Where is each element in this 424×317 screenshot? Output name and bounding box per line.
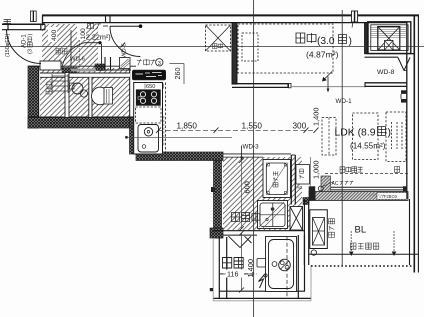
bath stool square	[257, 259, 266, 268]
counter front dashed edge	[165, 83, 167, 155]
bath centerline dashed	[286, 237, 288, 300]
bathroom left wall	[218, 237, 220, 299]
pipe symbol top-right	[352, 11, 355, 22]
WD-6 door threshold gray bar	[71, 69, 96, 72]
fridge dashed space	[136, 107, 162, 123]
yoshitsu left thick wall	[232, 23, 237, 85]
door jamb cap	[289, 83, 291, 87]
svg-text:AC: AC	[297, 185, 303, 190]
bathroom door folding V	[229, 236, 241, 247]
shelf ladder storage	[52, 75, 68, 77]
shelf small rect right of washroom	[296, 165, 310, 185]
genkan step	[40, 61, 61, 70]
oshiire dashed X box	[206, 25, 231, 51]
axis tick near hall	[121, 43, 126, 48]
niche corner block	[95, 64, 105, 71]
washroom label senmenshitsu	[232, 213, 240, 222]
svg-text:WD-3: WD-3	[243, 144, 260, 151]
svg-text:(3.0: (3.0	[317, 36, 335, 47]
top outer wall	[42, 14, 419, 16]
drain circle	[311, 250, 316, 255]
hatched area upper-left (common stair zone)	[42, 24, 98, 68]
top-left entrance wall segment	[2, 23, 45, 25]
shaft inner X square	[378, 27, 400, 50]
hall door WD-5 leaf + arc	[110, 25, 141, 27]
LDK / washroom dividing wall	[290, 155, 292, 205]
outer gray contour bathroom	[212, 238, 214, 301]
wall band kitchen left step	[130, 128, 138, 154]
wall between storage and basin room	[65, 73, 69, 117]
LDK sofa dashed	[386, 112, 406, 162]
svg-text:(4.87m²): (4.87m²)	[306, 50, 339, 60]
svg-text:300: 300	[293, 121, 307, 130]
1000 dim line	[309, 157, 311, 186]
X box next to vanity	[290, 207, 303, 231]
svg-text:3: 3	[158, 61, 161, 67]
kitchen side tiny text dashes	[163, 116, 165, 146]
small wall blob above rooms	[62, 68, 77, 73]
AC sleeve circle + leader	[318, 186, 323, 191]
washing machine	[263, 160, 291, 198]
bathroom bottom wall	[219, 290, 305, 292]
window jamb blocks	[309, 186, 316, 191]
bath faucet circles	[272, 262, 277, 267]
WD-3 arrow	[241, 146, 243, 160]
bathroom top wall	[214, 230, 306, 232]
svg-text:600: 600	[243, 181, 252, 193]
laundry hanger dotted lines	[350, 232, 352, 252]
right inner wall line	[406, 23, 408, 199]
260 niche bracket	[183, 64, 185, 85]
650 bracket	[144, 84, 146, 89]
axis line vertical center	[253, 0, 255, 317]
balcony floor line	[309, 253, 419, 255]
yoshitsu bottom wall left part	[232, 83, 288, 85]
svg-text:100: 100	[80, 28, 87, 40]
balcony outer dotted edge	[311, 265, 413, 267]
116 dim dashes	[219, 273, 225, 275]
pipe symbol top-left	[31, 11, 34, 22]
AC outdoor unit	[310, 210, 328, 249]
wash basin circles	[72, 83, 83, 94]
wall band left vertical	[28, 66, 39, 128]
svg-text:BL: BL	[355, 225, 367, 236]
indoor laundry label	[340, 167, 345, 173]
kitchen counter	[134, 83, 163, 155]
yoshitsu bottom wall right part	[365, 82, 407, 84]
entrance door jambs	[7, 24, 9, 31]
dim tick small square	[210, 288, 213, 291]
svg-text:(2.22m²): (2.22m²)	[84, 33, 111, 42]
shaft outer box	[368, 22, 411, 54]
svg-text:1,400: 1,400	[246, 259, 255, 278]
axis line vertical right	[341, 10, 343, 266]
shaft left wall	[365, 23, 369, 54]
svg-text:LDK (8.9: LDK (8.9	[335, 128, 376, 139]
bath vertical dim line	[241, 233, 243, 290]
WD-8 door V symbol	[398, 58, 404, 71]
dimension texts	[48, 27, 57, 42]
wall between basin and toilet room	[89, 77, 92, 117]
left cluster room walls	[28, 65, 136, 67]
axis line horizontal	[0, 46, 424, 48]
kitchen sink	[138, 125, 159, 153]
door position arrow	[327, 77, 329, 92]
hatched rooms lower-left cluster	[40, 68, 130, 117]
svg-text:): )	[28, 34, 34, 36]
600 dim extension line	[241, 161, 243, 229]
washroom top thin wall lines	[223, 153, 291, 155]
right outer wall double	[413, 15, 415, 273]
hall door jambs in top wall	[105, 15, 107, 22]
entrance door arc	[7, 30, 42, 64]
svg-text:=7F2BOX: =7F2BOX	[379, 194, 398, 199]
svg-text:AC: AC	[332, 181, 339, 187]
wall band below kitchen	[136, 152, 223, 161]
svg-text:400: 400	[51, 29, 58, 41]
wall band bathroom top-left block	[210, 228, 223, 238]
balcony left wall	[303, 200, 305, 265]
shower symbol	[259, 275, 265, 289]
svg-text:1,850: 1,850	[177, 121, 198, 130]
vanity cabinet	[258, 201, 288, 229]
room outdoor unit label (rotated)	[329, 219, 335, 238]
wall band washroom left vertical	[214, 161, 222, 239]
room label yoshitsu yoshitsu 3.0jo	[296, 33, 305, 43]
svg-text:): )	[388, 128, 391, 139]
toilet	[92, 87, 109, 105]
WD-6 door arc + leaf	[62, 43, 84, 67]
genkan tiny label	[56, 49, 61, 55]
bed dashed	[238, 24, 333, 73]
threshold gray line	[291, 86, 365, 88]
right wall window jamb	[401, 90, 407, 94]
bathtub	[266, 237, 297, 292]
shaft hatch lines	[371, 26, 408, 28]
bathroom label yokushitsu	[223, 258, 232, 269]
svg-text:WD-5: WD-5	[122, 43, 128, 58]
bathroom right wall	[297, 235, 299, 298]
main dim dashed line	[158, 129, 316, 131]
monohoshi kanamono	[351, 243, 357, 249]
right wall jog below shaft	[411, 53, 414, 55]
pillow dashed	[242, 33, 258, 61]
FD symbol	[4, 19, 12, 21]
niche recess	[120, 58, 131, 69]
svg-text:1,400: 1,400	[311, 108, 320, 127]
svg-text:(14.55m²): (14.55m²)	[350, 142, 386, 151]
ZBOX tiny label	[377, 193, 407, 200]
LDK table dashed	[353, 113, 379, 160]
hall label	[88, 23, 94, 30]
niche step walls	[104, 57, 106, 70]
window lines LDK south	[331, 186, 407, 188]
kitchen leader dot line	[125, 136, 128, 139]
TV board dashed	[322, 118, 336, 156]
stove	[136, 90, 160, 106]
indoor laundry dashed line	[325, 173, 410, 175]
svg-text:WD-8: WD-8	[377, 69, 395, 76]
svg-text:650: 650	[146, 84, 155, 90]
balcony top wall hatched band	[309, 192, 408, 201]
svg-text:1,000: 1,000	[311, 161, 320, 180]
kitchen label black box	[133, 70, 166, 80]
svg-text:260: 260	[173, 68, 182, 80]
stair side wall lines	[70, 30, 72, 68]
svg-text:116: 116	[227, 270, 238, 279]
svg-text:1,550: 1,550	[242, 121, 263, 130]
rooms top wall white band	[40, 73, 130, 77]
niche label	[137, 59, 142, 65]
svg-text:(150φFD): (150φFD)	[5, 34, 11, 57]
svg-text:WD-6: WD-6	[70, 57, 85, 63]
wall band bottom of left cluster	[28, 118, 136, 129]
bed corner arrow	[324, 72, 332, 80]
balcony band left end block	[309, 192, 316, 201]
svg-text:(3: (3	[28, 49, 34, 54]
svg-text:WD-1: WD-1	[336, 98, 353, 105]
monoire label rotated	[46, 82, 52, 94]
balcony left wall top block	[303, 198, 309, 205]
svg-text:): )	[349, 36, 352, 47]
washroom hatched floor	[223, 157, 302, 230]
small box inside shaft	[385, 41, 394, 51]
wall below shaft	[365, 53, 415, 55]
LDK south-west corner hatched block	[321, 176, 331, 192]
